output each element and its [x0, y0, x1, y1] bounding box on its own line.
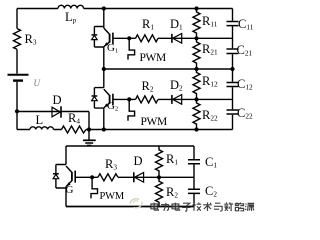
wire bottom rail [17, 129, 233, 131]
capacitor C22 [227, 110, 239, 114]
label C1 cell3 [205, 156, 217, 170]
label R3 left [25, 33, 37, 47]
wire gate row 2 [113, 98, 233, 100]
resistor R21 [193, 38, 200, 69]
diode D [52, 106, 61, 117]
label R4 [68, 112, 80, 126]
label L [36, 114, 44, 127]
label D main [53, 94, 62, 107]
resistor R3 left [14, 29, 21, 50]
transistor G [53, 165, 75, 189]
wire main column top [103, 9, 105, 29]
label C12 [237, 78, 253, 92]
diode D cell3 [134, 172, 144, 182]
label G2 [107, 101, 118, 113]
label PWM2 [141, 117, 167, 129]
label PWM1 [140, 53, 166, 65]
wire gate row 3 [75, 176, 194, 178]
wire cell3 left column [65, 146, 67, 207]
node R11 top [194, 6, 198, 10]
label R2 cell3 [166, 186, 178, 200]
resistor R2 cell3 [156, 177, 163, 206]
node gate row1 dot [127, 36, 131, 40]
wire top rail [17, 8, 233, 10]
resistor R22 [193, 99, 200, 129]
wire main column mid [103, 47, 105, 88]
node R12 junction [194, 97, 198, 101]
battery U [8, 74, 29, 76]
wire gate row 1 [113, 37, 233, 39]
resistor R3 cell3 [98, 174, 118, 181]
label R2 [142, 80, 154, 94]
inductor L [30, 127, 54, 130]
label R22 [202, 109, 218, 123]
label R1 [142, 18, 154, 32]
resistor R1 cell3 [156, 146, 163, 177]
label D cell3 [134, 155, 143, 168]
node R22 bottom [194, 127, 198, 131]
label R12 [202, 75, 218, 89]
label G cell3 [66, 185, 74, 196]
label C21 [237, 44, 253, 58]
inductor Lp [58, 5, 84, 8]
label PWM3 [100, 192, 125, 203]
diode D2 [172, 95, 182, 105]
node cap mid [230, 67, 234, 71]
pwm source 3 [91, 179, 98, 198]
box cell3 bottom rail [66, 206, 194, 208]
node R21 bottom [194, 67, 198, 71]
resistor R11 [193, 9, 200, 39]
label C2 cell3 [205, 185, 217, 199]
label D2 [170, 79, 183, 93]
node main column bottom [102, 127, 106, 131]
label D1 [170, 18, 183, 32]
pwm source 2 [128, 101, 135, 121]
wire cap column [232, 9, 234, 130]
wire battery to bottom corner [16, 82, 18, 130]
resistor R2 [136, 96, 159, 103]
watermark text [149, 201, 259, 215]
capacitor C11 [227, 22, 239, 26]
label C11 [238, 18, 253, 32]
node gate row3 dot [90, 175, 94, 179]
diode D1 [172, 34, 182, 44]
transistor G1 [92, 27, 113, 48]
label R21 [202, 43, 218, 57]
node ground junction [87, 127, 91, 131]
wire cap column cell3 [193, 146, 195, 207]
label Lp [65, 11, 76, 25]
wire main column lower [103, 108, 105, 129]
node battery junction [15, 109, 19, 113]
wire branch D row [17, 112, 89, 130]
label G1 [107, 43, 118, 55]
resistor R1 [136, 35, 159, 42]
node mid rail main [102, 67, 106, 71]
node R11 junction [194, 36, 198, 40]
wire mid rail [104, 68, 233, 70]
pwm source 1 [128, 40, 135, 60]
label R1 cell3 [166, 153, 178, 167]
box cell3 top rail [66, 145, 194, 147]
capacitor C2 [188, 189, 200, 193]
capacitor C21 [227, 49, 239, 54]
label U [34, 79, 41, 88]
label R11 [202, 15, 217, 29]
watermark logo [126, 196, 150, 212]
capacitor C12 [227, 83, 239, 87]
wire left column to battery [16, 49, 18, 73]
resistor R4 [62, 126, 87, 133]
label R3 cell3 [105, 158, 117, 172]
wire left column upper [16, 9, 18, 29]
capacitor C1 [188, 160, 200, 164]
ground [83, 130, 96, 146]
transistor G2 [92, 88, 113, 109]
label C22 [237, 107, 253, 121]
node top rail main [102, 6, 106, 10]
node gate row2 dot [127, 97, 131, 101]
node R1 cell3 junction [157, 175, 161, 179]
resistor R12 [193, 69, 200, 99]
